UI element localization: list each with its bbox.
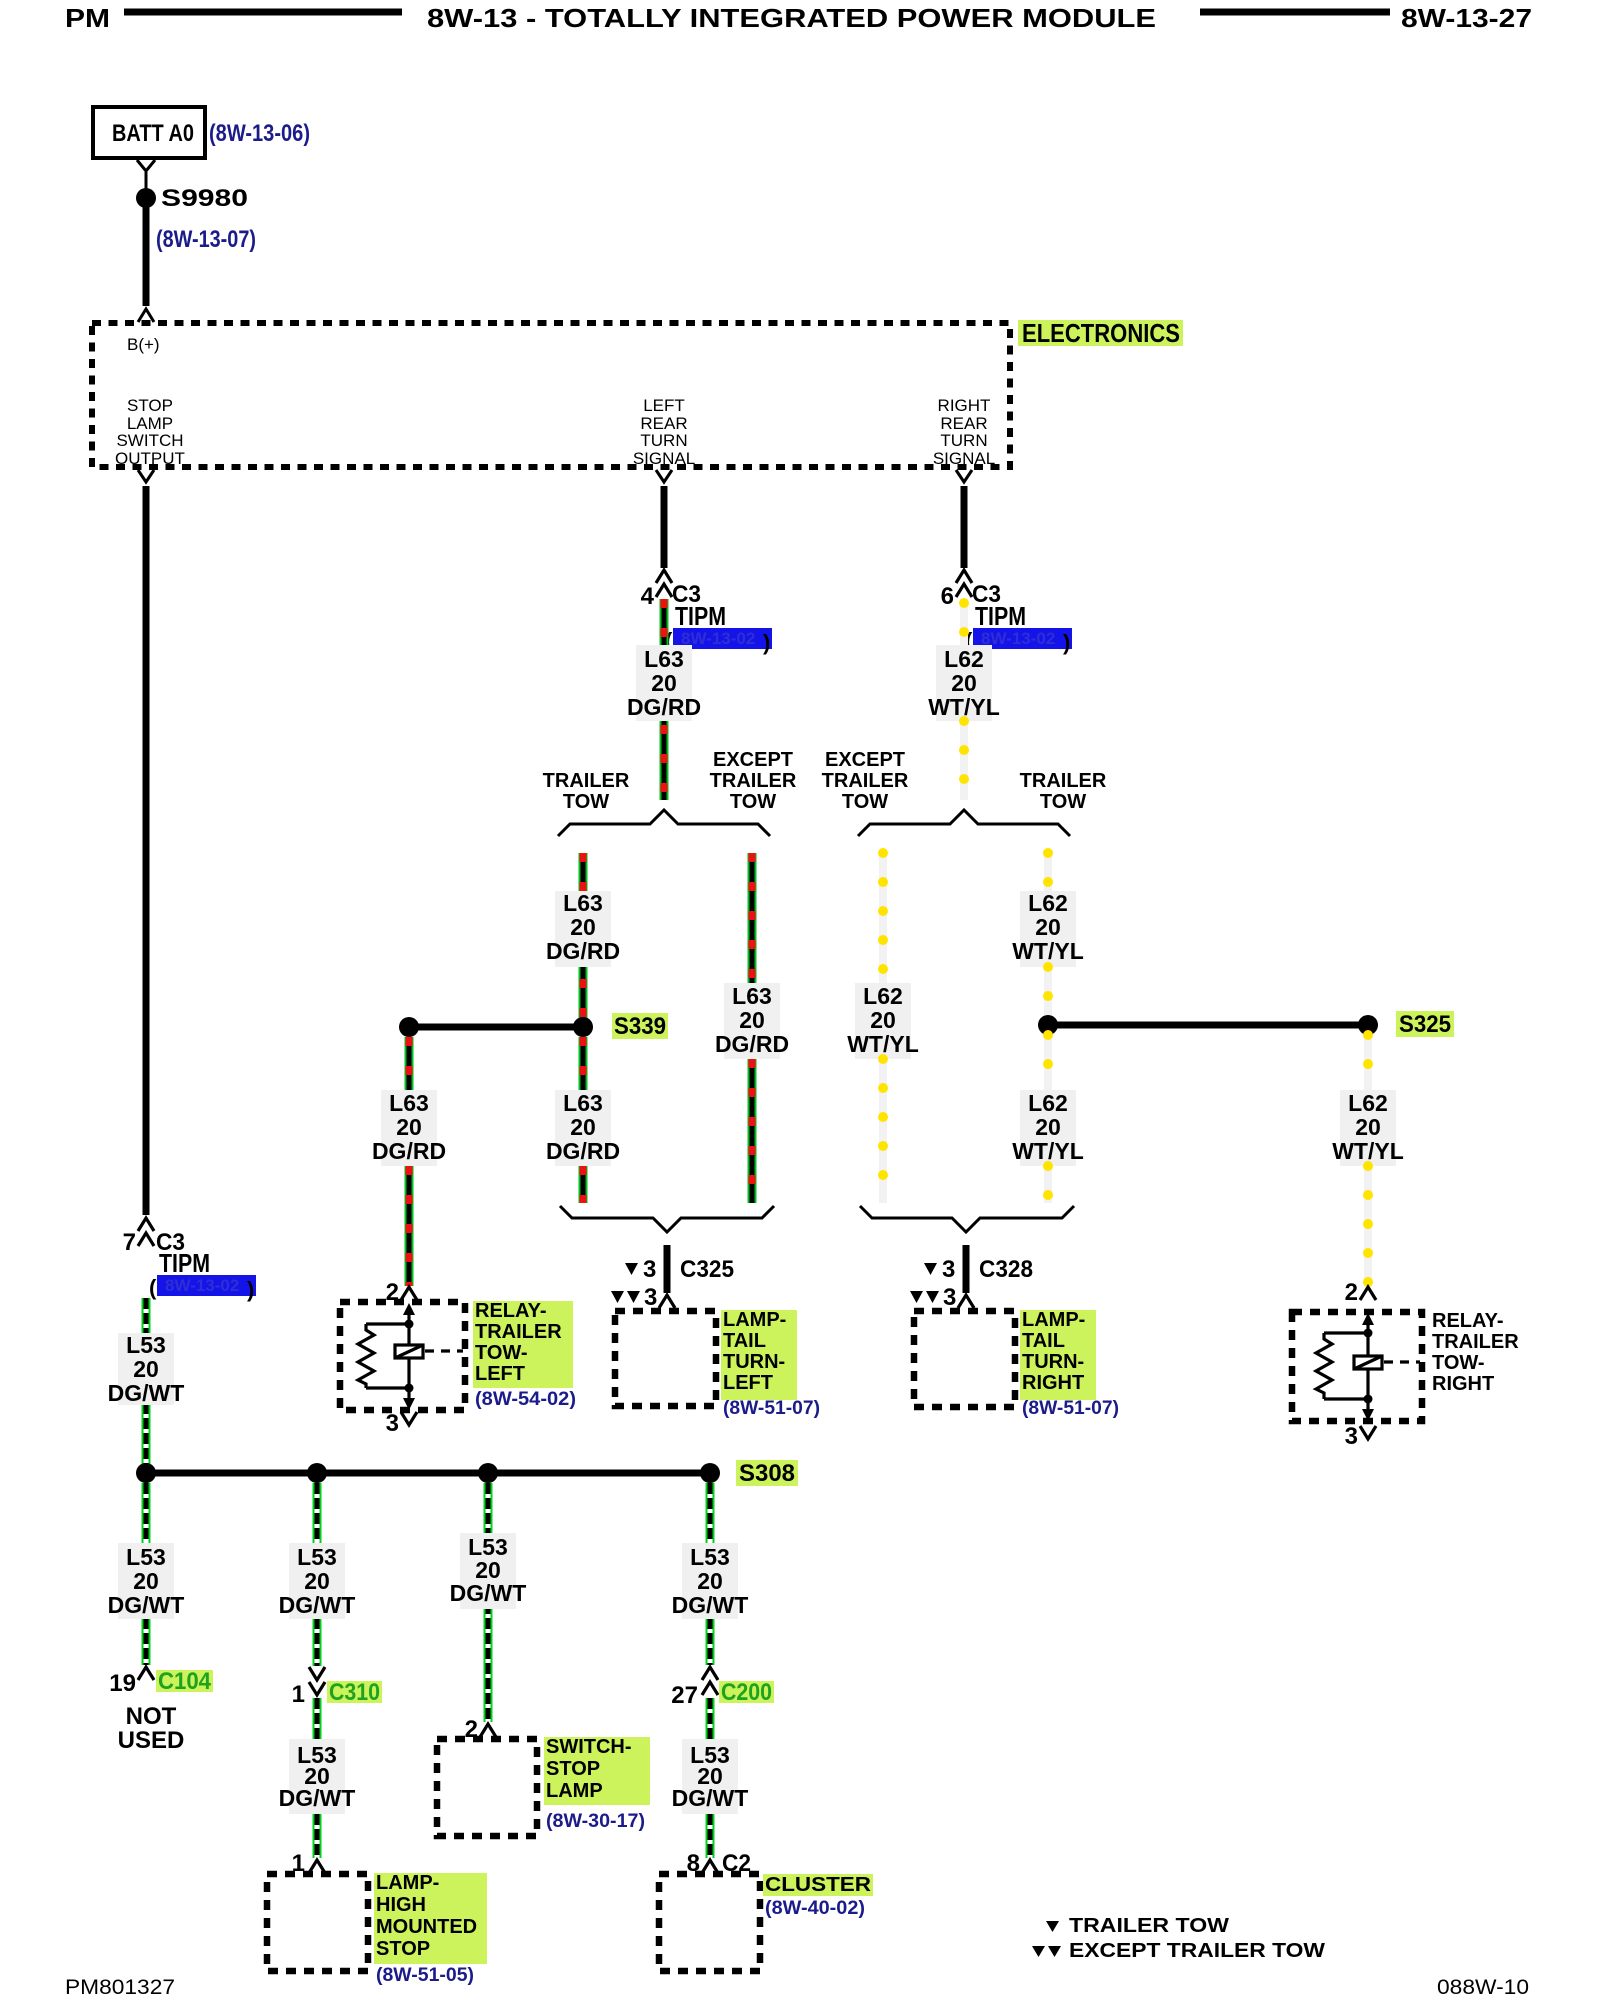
wire L62 lower segment to brace	[1044, 1166, 1052, 1203]
svg-text:TURN-: TURN-	[1022, 1351, 1084, 1373]
svg-text:TRAILER: TRAILER	[710, 770, 797, 792]
svg-text:L53: L53	[690, 1544, 730, 1570]
relay K2 internals	[1316, 1313, 1420, 1421]
wire L63 except trailer tow branch	[748, 853, 757, 983]
wire L53 to cluster	[706, 1814, 715, 1858]
svg-text:SWITCH: SWITCH	[116, 431, 183, 450]
svg-text:TOW: TOW	[842, 791, 888, 813]
svg-text:L62: L62	[1028, 1090, 1068, 1116]
label EXCEPT TRAILER TOW (middle)	[710, 749, 797, 813]
svg-text:L53: L53	[126, 1332, 166, 1358]
wire battery feed to TIPM	[143, 206, 150, 306]
svg-text:S339: S339	[614, 1013, 666, 1040]
svg-text:RIGHT: RIGHT	[1432, 1373, 1494, 1395]
pin LEFT REAR TURN SIGNAL	[633, 396, 695, 468]
branch 2: wire L53 to C310	[313, 1483, 322, 1666]
splice S339	[399, 1017, 593, 1037]
wire label L53 20 DG/WT	[279, 1739, 356, 1814]
wire L62 lower segment to brace	[879, 1059, 887, 1203]
svg-text:TOW: TOW	[730, 791, 776, 813]
svg-text:STOP: STOP	[127, 396, 173, 415]
label S308	[736, 1460, 798, 1487]
wire label L53 20 DG/WT	[672, 1543, 749, 1619]
svg-text:L63: L63	[563, 890, 603, 916]
svg-text:TOW-: TOW-	[475, 1342, 528, 1364]
wire L53 20 DG/WT from C3 pin 7	[142, 1298, 151, 1473]
wire L63 from S339 to relay trailer tow left	[405, 1037, 414, 1090]
splice S325	[1038, 1015, 1378, 1035]
svg-text:DG/WT: DG/WT	[108, 1592, 185, 1618]
svg-text:CLUSTER: CLUSTER	[765, 1874, 872, 1896]
svg-text:TIPM: TIPM	[159, 1248, 210, 1278]
relay K2 trailer tow right dashed box	[1292, 1312, 1422, 1421]
lamp high mounted stop pin 1	[292, 1850, 325, 1877]
svg-text:L63: L63	[389, 1090, 429, 1116]
svg-text:OUTPUT: OUTPUT	[115, 449, 185, 468]
svg-text:RIGHT: RIGHT	[1022, 1372, 1084, 1394]
svg-text:20: 20	[697, 1568, 723, 1594]
wire L62 except trailer tow branch	[879, 853, 887, 983]
wire L62 continues to split	[960, 721, 968, 800]
wire L63 to relay pin 2	[405, 1166, 414, 1286]
wire label L62 20 WT/YL	[1332, 1090, 1404, 1166]
svg-text:DG/RD: DG/RD	[715, 1031, 789, 1057]
svg-text:S308: S308	[739, 1460, 795, 1487]
legend trailer tow	[1046, 1915, 1229, 1937]
connector C328 pin 3 annotations	[910, 1256, 1033, 1311]
svg-text:): )	[247, 1277, 254, 1302]
svg-text:B(+): B(+)	[127, 335, 160, 354]
svg-text:8W-13-27: 8W-13-27	[1401, 3, 1532, 33]
svg-text:L53: L53	[126, 1544, 166, 1570]
cluster connector C2 pin 8	[687, 1850, 751, 1877]
svg-text:L63: L63	[644, 646, 684, 672]
legend except trailer tow	[1032, 1940, 1325, 1962]
svg-text:3: 3	[943, 1284, 956, 1311]
svg-text:20: 20	[739, 1007, 765, 1033]
svg-text:1: 1	[292, 1681, 305, 1708]
svg-text:20: 20	[304, 1568, 330, 1594]
svg-text:20: 20	[651, 670, 677, 696]
svg-text:TIPM: TIPM	[675, 601, 726, 631]
svg-text:WT/YL: WT/YL	[1332, 1138, 1404, 1164]
svg-text:TAIL: TAIL	[723, 1330, 766, 1352]
svg-text:088W-10: 088W-10	[1437, 1976, 1529, 1999]
svg-text:TURN: TURN	[940, 431, 987, 450]
wire label L62 20 WT/YL	[928, 645, 1000, 721]
svg-text:(8W-51-07): (8W-51-07)	[723, 1398, 820, 1419]
label S325	[1396, 1011, 1454, 1038]
connector symbols below module pins	[138, 470, 972, 482]
cluster dashed box	[659, 1874, 760, 1971]
connector C325 pin 3 annotations	[611, 1256, 734, 1311]
label ELECTRONICS	[1018, 318, 1183, 348]
svg-text:20: 20	[870, 1007, 896, 1033]
svg-text:7: 7	[123, 1229, 136, 1256]
wire label L63 20 DG/RD	[627, 645, 701, 721]
svg-text:USED: USED	[118, 1727, 185, 1754]
label LAMP-TAIL TURN-LEFT	[721, 1309, 820, 1419]
svg-text:3: 3	[1345, 1423, 1358, 1450]
wire stop lamp switch output (left column)	[143, 486, 150, 1215]
wire L63 trailer tow branch upper	[579, 853, 588, 891]
svg-text:RELAY-: RELAY-	[475, 1300, 547, 1322]
splice S9980	[136, 188, 156, 208]
relay K1 pin 3	[386, 1410, 417, 1437]
svg-text:TRAILER: TRAILER	[822, 770, 909, 792]
label LAMP-TAIL TURN-RIGHT	[1020, 1309, 1119, 1419]
connector C200 pin 27	[671, 1667, 774, 1709]
svg-text:(8W-54-02): (8W-54-02)	[475, 1389, 576, 1410]
relay trailer tow left pin 2	[386, 1279, 417, 1306]
wire left rear turn signal (middle column)	[661, 486, 668, 568]
wire L53 below C200	[706, 1698, 715, 1739]
svg-text:TRAILER: TRAILER	[1020, 770, 1107, 792]
connector C3 pin 4	[641, 570, 701, 610]
module TIPM ELECTRONICS dashed box	[92, 323, 1010, 467]
svg-text:L53: L53	[297, 1544, 337, 1570]
wire label L62 20 WT/YL	[1012, 890, 1084, 967]
svg-text:(8W-51-07): (8W-51-07)	[1022, 1398, 1119, 1419]
svg-text:S9980: S9980	[161, 185, 248, 212]
svg-text:8W-13 - TOTALLY INTEGRATED POW: 8W-13 - TOTALLY INTEGRATED POWER MODULE	[427, 3, 1156, 33]
wire L62 to relay pin 2	[1364, 1166, 1372, 1286]
pin RIGHT REAR TURN SIGNAL	[933, 396, 995, 468]
svg-text:STOP: STOP	[546, 1758, 600, 1780]
svg-text:(8W-51-05): (8W-51-05)	[376, 1965, 474, 1986]
svg-text:PM: PM	[65, 3, 110, 33]
label EXCEPT TRAILER TOW (right side)	[822, 749, 909, 813]
svg-text:DG/RD: DG/RD	[546, 938, 620, 964]
svg-text:20: 20	[951, 670, 977, 696]
svg-text:C328: C328	[979, 1256, 1033, 1283]
wire into connector C325	[664, 1245, 671, 1293]
connector chevron into TIPM B(+)	[138, 309, 154, 322]
svg-text:3: 3	[942, 1256, 955, 1283]
wire label L63 20 DG/RD	[546, 1090, 620, 1166]
svg-text:6: 6	[941, 583, 954, 610]
label RELAY-TRAILER TOW-RIGHT	[1432, 1310, 1519, 1395]
svg-text:8W-13-02: 8W-13-02	[681, 629, 755, 648]
svg-text:LAMP-: LAMP-	[723, 1309, 786, 1331]
wire L62 from S325 down to C328	[1044, 1035, 1052, 1090]
svg-text:20: 20	[1035, 1114, 1061, 1140]
header rule right	[1200, 9, 1390, 16]
svg-text:20: 20	[133, 1568, 159, 1594]
svg-text:LAMP-: LAMP-	[376, 1872, 439, 1894]
relay trailer tow right pin 2	[1345, 1279, 1376, 1306]
splice S308	[136, 1463, 720, 1483]
wire label L63 20 DG/RD	[715, 983, 789, 1059]
svg-text:DG/RD: DG/RD	[372, 1138, 446, 1164]
wire right rear turn signal (right column)	[961, 486, 968, 568]
svg-text:27: 27	[671, 1682, 698, 1709]
svg-text:DG/RD: DG/RD	[546, 1138, 620, 1164]
svg-text:C325: C325	[680, 1256, 734, 1283]
svg-text:20: 20	[570, 914, 596, 940]
svg-text:20: 20	[133, 1356, 159, 1382]
svg-text:DG/WT: DG/WT	[450, 1580, 527, 1606]
connector symbol below BATT A0	[137, 160, 155, 196]
svg-text:LAMP: LAMP	[546, 1780, 603, 1802]
svg-text:PM801327: PM801327	[65, 1976, 175, 1999]
wire L63 20 DG/RD from C3 pin 4	[660, 599, 669, 645]
svg-text:LAMP-: LAMP-	[1022, 1309, 1085, 1331]
svg-text:(8W-13-07): (8W-13-07)	[156, 226, 256, 253]
svg-text:STOP: STOP	[376, 1938, 430, 1960]
wire label L53 20 DG/WT	[450, 1533, 527, 1609]
wire label L53 20 DG/WT	[108, 1543, 185, 1619]
brace split left turn circuit	[558, 810, 770, 836]
svg-text:TAIL: TAIL	[1022, 1330, 1065, 1352]
svg-text:L62: L62	[1348, 1090, 1388, 1116]
svg-text:19: 19	[109, 1670, 136, 1697]
reference link (8W-13-02)	[965, 628, 1072, 655]
svg-text:TIPM: TIPM	[975, 601, 1026, 631]
svg-text:TOW: TOW	[563, 791, 609, 813]
svg-text:DG/WT: DG/WT	[279, 1785, 356, 1811]
svg-text:EXCEPT TRAILER TOW: EXCEPT TRAILER TOW	[1069, 1940, 1325, 1962]
wire label L53 20 DG/WT	[672, 1739, 749, 1814]
label TRAILER TOW (left)	[543, 770, 630, 813]
svg-text:ELECTRONICS: ELECTRONICS	[1022, 318, 1180, 348]
wire L62 into splice S325	[1044, 967, 1052, 1025]
branch 3: wire L53 to switch stop lamp	[484, 1483, 493, 1722]
svg-text:TOW-: TOW-	[1432, 1352, 1485, 1374]
svg-text:S325: S325	[1399, 1011, 1451, 1038]
svg-text:4: 4	[641, 583, 655, 610]
svg-text:20: 20	[1355, 1114, 1381, 1140]
wire L63 from S339 down to C325	[579, 1037, 588, 1090]
wire label L63 20 DG/RD	[546, 890, 620, 967]
wire L63 into splice S339	[579, 967, 588, 1027]
svg-text:8W-13-02: 8W-13-02	[165, 1276, 239, 1295]
wire L63 lower segment to brace	[579, 1166, 588, 1203]
relay K2 pin 3	[1345, 1423, 1376, 1450]
lamp high mounted stop dashed box	[267, 1874, 368, 1971]
svg-text:L63: L63	[563, 1090, 603, 1116]
wire L62 from S325 to relay trailer tow right	[1364, 1035, 1372, 1090]
wire L53 below C310	[313, 1698, 322, 1739]
connector C3 pin 7 (left column)	[123, 1218, 185, 1256]
svg-text:SIGNAL: SIGNAL	[633, 449, 695, 468]
label TRAILER TOW (far right)	[1020, 770, 1107, 813]
svg-text:2: 2	[1345, 1279, 1358, 1306]
label CLUSTER	[763, 1874, 873, 1919]
svg-text:RIGHT: RIGHT	[938, 396, 991, 415]
svg-text:C310: C310	[329, 1679, 380, 1706]
wire label L62 20 WT/YL	[847, 983, 919, 1059]
svg-text:(8W-30-17): (8W-30-17)	[546, 1811, 645, 1832]
reference link (8W-13-02)	[149, 1275, 256, 1302]
relay K1 trailer tow left dashed box	[340, 1302, 465, 1410]
lamp tail/turn right dashed box	[914, 1311, 1015, 1407]
branch 4: wire L53 to C200	[706, 1483, 715, 1665]
wire label L53 20 DG/WT	[279, 1543, 356, 1619]
brace merge into C328	[860, 1206, 1074, 1232]
label S339	[612, 1013, 668, 1040]
svg-text:TURN-: TURN-	[723, 1351, 785, 1373]
svg-text:3: 3	[643, 1256, 656, 1283]
svg-text:NOT: NOT	[126, 1703, 177, 1730]
svg-text:BATT A0: BATT A0	[112, 120, 194, 147]
svg-text:L62: L62	[863, 983, 903, 1009]
svg-text:20: 20	[1035, 914, 1061, 940]
svg-text:WT/YL: WT/YL	[1012, 938, 1084, 964]
wire L53 to lamp high mounted stop	[313, 1814, 322, 1858]
pin STOP LAMP SWITCH OUTPUT	[115, 396, 185, 468]
label LAMP-HIGH MOUNTED STOP	[374, 1872, 487, 1986]
label RELAY-TRAILER TOW-LEFT	[473, 1300, 576, 1410]
svg-text:EXCEPT: EXCEPT	[713, 749, 793, 771]
svg-text:MOUNTED: MOUNTED	[376, 1916, 477, 1938]
svg-text:20: 20	[570, 1114, 596, 1140]
branch 1: wire L53 to C104	[142, 1483, 151, 1665]
switch stop lamp pin 2	[465, 1716, 496, 1743]
svg-text:L63: L63	[732, 983, 772, 1009]
label NOT USED	[118, 1703, 185, 1754]
svg-text:(8W-13-06): (8W-13-06)	[209, 120, 310, 147]
svg-text:DG/WT: DG/WT	[672, 1592, 749, 1618]
connector C104 pin 19	[109, 1667, 213, 1697]
svg-text:SWITCH-: SWITCH-	[546, 1736, 632, 1758]
header rule left	[124, 9, 402, 16]
svg-text:WT/YL: WT/YL	[847, 1031, 919, 1057]
svg-text:C104: C104	[158, 1668, 212, 1695]
wire L62 20 WT/YL from C3 pin 6	[960, 599, 968, 645]
svg-text:TURN: TURN	[640, 431, 687, 450]
svg-text:DG/WT: DG/WT	[672, 1785, 749, 1811]
reference link (8W-13-02)	[665, 628, 772, 655]
wire L63 continues to split	[660, 721, 669, 800]
wire L62 trailer tow branch upper	[1044, 853, 1052, 891]
svg-text:(8W-40-02): (8W-40-02)	[765, 1898, 865, 1919]
svg-text:TRAILER: TRAILER	[475, 1321, 562, 1343]
svg-text:): )	[1063, 630, 1070, 655]
svg-text:8W-13-02: 8W-13-02	[981, 629, 1055, 648]
svg-text:RELAY-: RELAY-	[1432, 1310, 1504, 1332]
svg-text:WT/YL: WT/YL	[1012, 1138, 1084, 1164]
wire L63 lower segment to brace	[748, 1059, 757, 1203]
wire label L62 20 WT/YL	[1012, 1090, 1084, 1166]
fuse BATT A0 box	[93, 107, 205, 158]
wire label L63 20 DG/RD	[372, 1090, 446, 1166]
svg-text:LEFT: LEFT	[475, 1363, 525, 1385]
svg-text:SIGNAL: SIGNAL	[933, 449, 995, 468]
svg-text:DG/WT: DG/WT	[108, 1380, 185, 1406]
svg-text:LEFT: LEFT	[643, 396, 685, 415]
svg-text:TOW: TOW	[1040, 791, 1086, 813]
relay K1 internals	[358, 1303, 463, 1410]
svg-text:LEFT: LEFT	[723, 1372, 773, 1394]
svg-text:L62: L62	[1028, 890, 1068, 916]
svg-text:20: 20	[396, 1114, 422, 1140]
brace split right turn circuit	[858, 810, 1070, 836]
svg-text:C200: C200	[721, 1679, 772, 1706]
wire label L53 20 DG/WT	[108, 1332, 185, 1406]
connector C310 pin 1	[292, 1667, 382, 1708]
svg-text:EXCEPT: EXCEPT	[825, 749, 905, 771]
label SWITCH-STOP LAMP	[544, 1736, 650, 1832]
svg-text:DG/WT: DG/WT	[279, 1592, 356, 1618]
svg-text:(: (	[149, 1275, 157, 1300]
svg-text:): )	[763, 630, 770, 655]
svg-text:L62: L62	[944, 646, 984, 672]
svg-text:TRAILER: TRAILER	[1432, 1331, 1519, 1353]
svg-text:HIGH: HIGH	[376, 1894, 426, 1916]
svg-text:DG/RD: DG/RD	[627, 694, 701, 720]
lamp tail/turn left dashed box	[615, 1311, 716, 1406]
svg-text:TRAILER TOW: TRAILER TOW	[1069, 1915, 1229, 1937]
wire into connector C328	[963, 1245, 970, 1293]
svg-text:TRAILER: TRAILER	[543, 770, 630, 792]
brace merge into C325	[560, 1206, 774, 1232]
svg-text:3: 3	[386, 1410, 399, 1437]
svg-text:3: 3	[644, 1284, 657, 1311]
switch stop lamp dashed box	[437, 1739, 537, 1836]
connector C3 pin 6	[941, 570, 1001, 610]
